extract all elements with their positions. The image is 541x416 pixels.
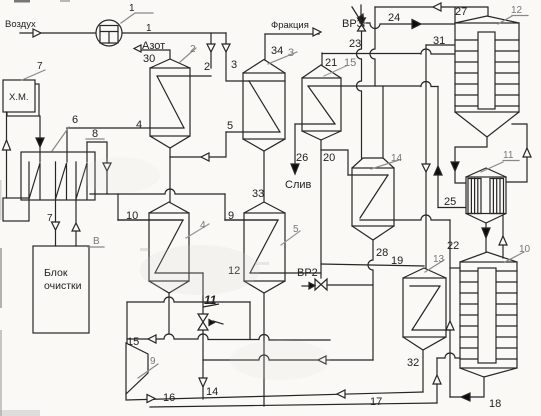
svg-text:18: 18 — [489, 398, 501, 410]
svg-text:2: 2 — [190, 44, 196, 55]
svg-text:6: 6 — [72, 114, 78, 126]
svg-text:2: 2 — [204, 61, 210, 73]
svg-text:Х.М.: Х.М. — [9, 92, 29, 103]
svg-text:20: 20 — [323, 152, 335, 164]
svg-text:14: 14 — [391, 153, 403, 164]
svg-text:33: 33 — [252, 188, 264, 200]
svg-text:28: 28 — [376, 247, 388, 259]
svg-text:14: 14 — [206, 386, 218, 398]
svg-text:4: 4 — [136, 119, 142, 131]
svg-text:В: В — [93, 236, 100, 247]
svg-text:1: 1 — [146, 23, 152, 34]
svg-text:ВР3: ВР3 — [342, 18, 363, 30]
svg-text:13: 13 — [433, 254, 445, 265]
svg-text:24: 24 — [388, 12, 400, 24]
svg-text:5: 5 — [227, 120, 233, 132]
svg-text:26: 26 — [296, 152, 308, 164]
svg-text:Слив: Слив — [285, 179, 312, 191]
svg-text:8: 8 — [92, 128, 98, 140]
svg-text:16: 16 — [163, 392, 175, 404]
svg-text:4: 4 — [200, 220, 206, 231]
svg-text:Воздух: Воздух — [5, 19, 36, 30]
svg-text:7: 7 — [37, 61, 43, 72]
svg-text:30: 30 — [143, 53, 155, 65]
svg-text:10: 10 — [126, 210, 138, 222]
svg-text:15: 15 — [127, 336, 139, 348]
svg-text:9: 9 — [150, 356, 156, 367]
svg-text:очистки: очистки — [44, 280, 82, 292]
svg-text:Блок: Блок — [44, 267, 68, 279]
svg-text:9: 9 — [228, 210, 234, 222]
svg-text:15: 15 — [344, 57, 356, 69]
svg-text:7: 7 — [47, 213, 53, 224]
svg-text:22: 22 — [447, 240, 459, 252]
svg-text:19: 19 — [391, 255, 403, 267]
svg-text:10: 10 — [519, 244, 531, 255]
svg-text:23: 23 — [349, 38, 361, 50]
svg-text:Фракция: Фракция — [271, 20, 309, 31]
svg-text:1: 1 — [129, 3, 135, 14]
svg-text:12: 12 — [511, 5, 523, 16]
svg-text:11: 11 — [503, 150, 514, 161]
svg-text:25: 25 — [444, 196, 456, 208]
svg-text:21: 21 — [325, 57, 337, 69]
svg-text:3: 3 — [231, 59, 237, 71]
svg-text:27: 27 — [455, 6, 467, 18]
svg-text:31: 31 — [433, 35, 445, 47]
svg-text:ВР2: ВР2 — [297, 267, 318, 279]
svg-text:32: 32 — [407, 357, 419, 369]
svg-text:3: 3 — [288, 47, 294, 59]
svg-text:5: 5 — [293, 224, 299, 235]
svg-text:Азот: Азот — [142, 40, 165, 52]
svg-text:34: 34 — [271, 45, 283, 57]
svg-text:17: 17 — [370, 396, 382, 408]
